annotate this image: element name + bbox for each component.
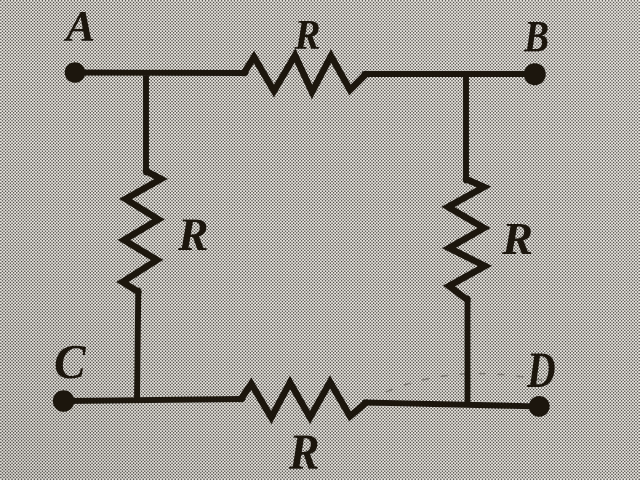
svg-text:B: B [523,12,549,61]
svg-text:R: R [294,12,321,59]
svg-text:D: D [526,342,555,398]
svg-text:C: C [54,334,87,389]
svg-text:A: A [63,3,95,51]
svg-text:R: R [177,209,208,261]
svg-text:R: R [501,214,533,264]
svg-text:R: R [288,425,319,480]
